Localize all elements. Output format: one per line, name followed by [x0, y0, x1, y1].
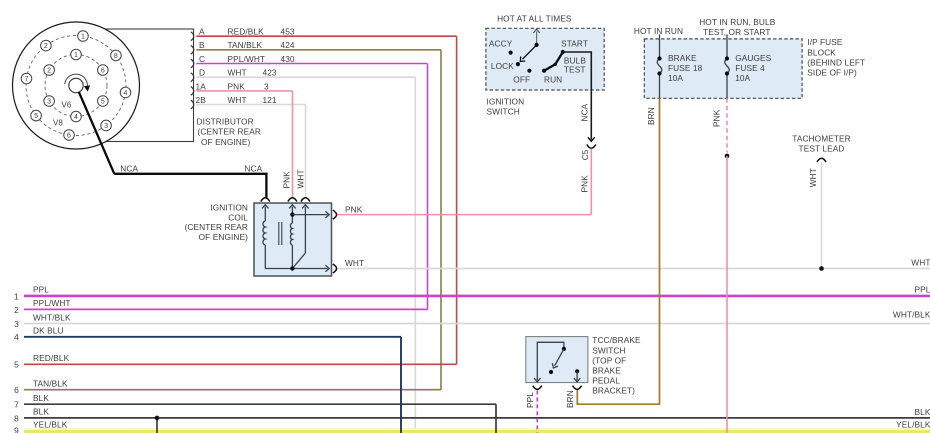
svg-text:5: 5 [14, 360, 19, 370]
svg-text:WHT: WHT [808, 168, 818, 187]
svg-text:2: 2 [47, 68, 51, 75]
svg-text:424: 424 [281, 40, 295, 50]
svg-text:1A: 1A [196, 81, 207, 91]
svg-text:9: 9 [14, 425, 19, 433]
svg-text:C5: C5 [580, 149, 590, 160]
svg-text:(CENTER REAR: (CENTER REAR [198, 127, 261, 137]
svg-text:5: 5 [34, 113, 38, 120]
svg-text:5: 5 [101, 99, 105, 106]
svg-text:LOCK: LOCK [491, 61, 514, 71]
svg-text:(CENTER REAR: (CENTER REAR [185, 222, 248, 232]
svg-text:PPL/WHT: PPL/WHT [33, 298, 71, 308]
svg-text:430: 430 [281, 54, 295, 64]
svg-text:3: 3 [47, 99, 51, 106]
svg-text:3: 3 [264, 81, 269, 91]
svg-text:SWITCH: SWITCH [487, 106, 520, 116]
svg-text:1: 1 [81, 33, 85, 40]
svg-text:I/P FUSE: I/P FUSE [807, 37, 843, 47]
svg-text:FUSE 4: FUSE 4 [735, 63, 765, 73]
svg-text:DISTRIBUTOR: DISTRIBUTOR [197, 117, 254, 127]
svg-text:OFF: OFF [513, 75, 530, 85]
svg-text:TAN/BLK: TAN/BLK [33, 379, 68, 389]
svg-text:WHT/BLK: WHT/BLK [33, 312, 71, 322]
svg-text:TCC/BRAKE: TCC/BRAKE [592, 335, 641, 345]
svg-text:NCA: NCA [244, 163, 262, 173]
svg-text:BRACKET): BRACKET) [592, 386, 635, 396]
svg-text:4: 4 [74, 114, 78, 121]
svg-text:TEST: TEST [564, 64, 586, 74]
svg-text:PPL: PPL [525, 392, 535, 408]
svg-text:PEDAL: PEDAL [592, 375, 620, 385]
svg-text:WHT: WHT [345, 258, 364, 268]
svg-text:(BEHIND LEFT: (BEHIND LEFT [807, 57, 865, 67]
svg-text:TACHOMETER: TACHOMETER [792, 133, 850, 143]
svg-text:OF ENGINE): OF ENGINE) [201, 137, 251, 147]
svg-text:BLK: BLK [33, 393, 49, 403]
svg-text:PNK: PNK [345, 204, 363, 214]
svg-text:3: 3 [104, 123, 108, 130]
svg-text:SIDE OF I/P): SIDE OF I/P) [807, 67, 857, 77]
svg-text:FUSE 18: FUSE 18 [668, 63, 703, 73]
svg-text:PPL: PPL [915, 285, 930, 295]
svg-text:4: 4 [124, 90, 128, 97]
svg-text:6: 6 [101, 68, 105, 75]
svg-text:6: 6 [14, 385, 19, 395]
svg-text:IGNITION: IGNITION [487, 96, 525, 106]
svg-text:10A: 10A [668, 73, 683, 83]
svg-text:BLK: BLK [33, 407, 49, 417]
svg-text:SWITCH: SWITCH [592, 345, 625, 355]
svg-text:V6: V6 [62, 100, 72, 109]
svg-text:TAN/BLK: TAN/BLK [228, 40, 263, 50]
svg-text:HOT IN RUN, BULB: HOT IN RUN, BULB [699, 17, 775, 27]
svg-text:NCA: NCA [120, 163, 138, 173]
svg-text:WHT: WHT [228, 95, 247, 105]
svg-text:WHT/BLK: WHT/BLK [893, 309, 930, 319]
svg-text:DK BLU: DK BLU [33, 326, 64, 336]
svg-text:BLOCK: BLOCK [807, 47, 836, 57]
svg-text:D: D [199, 68, 205, 78]
svg-text:BRAKE: BRAKE [668, 53, 697, 63]
svg-text:2: 2 [44, 43, 48, 50]
svg-text:3: 3 [14, 319, 19, 329]
svg-text:NCA: NCA [579, 103, 589, 121]
svg-text:PNK: PNK [712, 109, 722, 127]
svg-text:RED/BLK: RED/BLK [33, 353, 70, 363]
svg-text:453: 453 [281, 27, 295, 37]
svg-text:7: 7 [24, 76, 28, 83]
svg-text:C: C [199, 54, 205, 64]
svg-text:2B: 2B [196, 95, 207, 105]
svg-text:1: 1 [74, 52, 78, 59]
svg-text:423: 423 [263, 68, 277, 78]
svg-text:6: 6 [67, 133, 71, 140]
svg-text:TEST, OR START: TEST, OR START [703, 27, 770, 37]
svg-text:PNK: PNK [282, 171, 292, 189]
svg-text:4: 4 [14, 332, 19, 342]
svg-text:PNK: PNK [228, 81, 246, 91]
svg-text:YEL/BLK: YEL/BLK [33, 419, 68, 429]
svg-text:TEST LEAD: TEST LEAD [799, 144, 845, 154]
svg-text:BLK: BLK [915, 407, 930, 417]
svg-text:GAUGES: GAUGES [735, 53, 771, 63]
svg-text:RUN: RUN [544, 75, 562, 85]
svg-text:COIL: COIL [228, 212, 248, 222]
svg-text:OF ENGINE): OF ENGINE) [199, 232, 249, 242]
svg-text:PPL: PPL [33, 285, 49, 295]
svg-text:A: A [199, 27, 205, 37]
svg-text:HOT AT ALL TIMES: HOT AT ALL TIMES [497, 13, 572, 23]
svg-text:PPL/WHT: PPL/WHT [228, 54, 266, 64]
svg-text:121: 121 [263, 95, 277, 105]
svg-text:8: 8 [114, 53, 118, 60]
svg-text:RED/BLK: RED/BLK [228, 27, 265, 37]
svg-text:7: 7 [14, 400, 19, 410]
svg-text:BRN: BRN [565, 390, 575, 408]
svg-text:2: 2 [14, 305, 19, 315]
svg-text:V8: V8 [53, 119, 63, 128]
svg-text:HOT IN RUN: HOT IN RUN [634, 26, 683, 36]
svg-text:1: 1 [14, 291, 19, 301]
svg-text:WHT: WHT [295, 169, 305, 188]
svg-text:WHT: WHT [228, 68, 247, 78]
svg-text:10A: 10A [735, 73, 750, 83]
svg-text:IGNITION: IGNITION [210, 202, 248, 212]
svg-text:BRAKE: BRAKE [592, 365, 621, 375]
svg-text:PNK: PNK [579, 175, 589, 193]
svg-text:ACCY: ACCY [489, 38, 513, 48]
svg-text:YEL/BLK: YEL/BLK [896, 420, 930, 430]
svg-text:B: B [199, 40, 205, 50]
svg-text:START: START [561, 38, 588, 48]
svg-text:(TOP OF: (TOP OF [592, 355, 626, 365]
svg-text:8: 8 [14, 413, 19, 423]
svg-text:BRN: BRN [646, 107, 656, 125]
svg-text:WHT: WHT [911, 258, 930, 268]
